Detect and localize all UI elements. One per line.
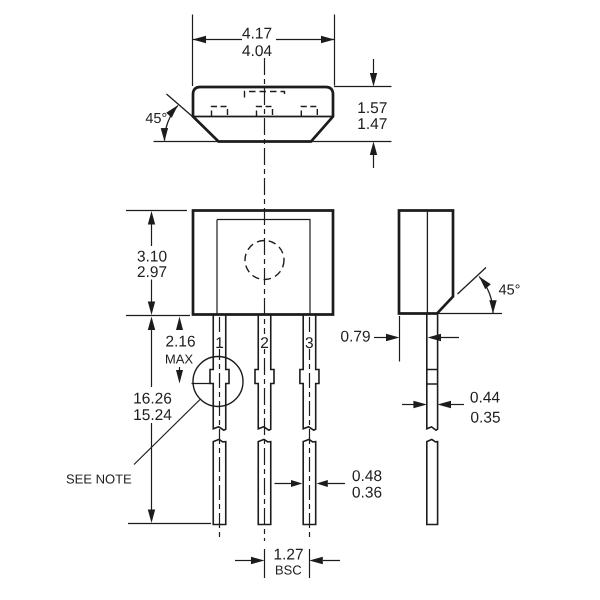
text lead number 2: [261, 337, 268, 348]
45 deg callout (side) arc: [479, 277, 493, 314]
text 0.44: [471, 392, 500, 403]
dim 4.17 arrow right: [321, 36, 335, 43]
side view body outline: [399, 211, 453, 314]
dim 2.16 arrow down: [176, 370, 183, 384]
text 1.27: [275, 549, 303, 560]
dim 2.16 arrow down line: [179, 367, 181, 370]
front view lead 3 lower segment: [303, 439, 316, 524]
front view lead 2 lower segment: [258, 439, 271, 524]
centerline lead 1: [219, 317, 221, 541]
text lead number 3: [306, 337, 313, 348]
dim 0.48 arrow left-pointing: [317, 480, 328, 487]
text 3.10: [138, 251, 167, 262]
45 deg callout slant line: [167, 94, 194, 117]
text 45 deg side: [499, 284, 520, 294]
front view lead 2: [255, 315, 274, 430]
text 15.24: [134, 409, 171, 420]
dim 0.79 arrow right-pointing: [386, 334, 400, 341]
dim 3.10/2.97 ext line bottom: [126, 315, 190, 317]
45 deg arc arrow upper: [166, 105, 178, 118]
dim 1.57 bottom arrow line: [373, 155, 375, 168]
45 deg (side) arc arrow lower: [489, 300, 496, 313]
centerline main vertical (x=264.5): [264, 58, 266, 541]
dim 16.26 arrow up: [148, 317, 155, 331]
dim 1.27 arrow left-pointing: [309, 557, 323, 564]
dim 16.26 dimension line: [151, 330, 153, 510]
dim 1.27 arrow right-pointing: [251, 557, 265, 564]
see-note leader line: [134, 400, 200, 465]
text 1.57: [358, 102, 386, 113]
45 deg (side) arc arrow upper: [479, 277, 491, 290]
text 0.36: [353, 487, 382, 498]
front view hidden circle (dashed): [245, 241, 284, 280]
text SEE NOTE: [67, 474, 132, 483]
45 deg callout (side) ext line: [437, 313, 502, 315]
dim 2.16 ext line (lead shoulder): [192, 383, 210, 385]
front view body outline: [193, 211, 333, 315]
dim 1.27 arrow line left: [235, 560, 251, 562]
dim 3.10 arrow bottom: [148, 302, 155, 316]
dim 0.44 arrow left-pointing: [438, 401, 452, 408]
text 0.79: [341, 331, 370, 342]
45 deg callout (top view) ext line bottom left: [154, 141, 219, 143]
text 1.47: [358, 118, 386, 129]
dim 3.10/2.97 ext line top: [126, 210, 187, 212]
dim 3.10 arrow top: [148, 211, 155, 225]
dim 0.79 ext line: [399, 316, 401, 362]
top view hidden pad (dashed): [245, 92, 285, 98]
dim 16.26 ext line bottom: [128, 523, 211, 525]
dim 0.44 arrow line right: [451, 404, 464, 406]
text 4.17: [242, 28, 271, 39]
dim 0.48/0.36 arrow line left: [275, 483, 292, 485]
text 2.16: [166, 336, 195, 347]
top view hidden lead tab 2 (dashed): [257, 107, 273, 117]
top view body outline: [193, 87, 333, 142]
side view lead shoulder ticks: [427, 370, 438, 385]
top view hidden lead tab 1 (dashed): [212, 107, 228, 117]
dim 1.57/1.47 top arrow line: [373, 59, 375, 73]
dim 0.44 arrow right-pointing: [413, 401, 427, 408]
text BSC: [276, 565, 301, 574]
dim 3.10 dimension line: [151, 224, 153, 302]
dim 0.44/0.35 arrow line left: [402, 404, 414, 406]
text 0.48: [353, 470, 382, 481]
dim 1.27 ext line left: [264, 549, 266, 578]
text 2.97: [138, 266, 167, 277]
dim 1.57 ext line top: [334, 86, 392, 88]
45 deg callout arc: [165, 106, 178, 141]
top view mid edge line: [193, 116, 333, 118]
lead number labels backing: [215, 334, 315, 349]
45 deg arc arrow lower: [161, 128, 168, 142]
dim 16.26 arrow down: [148, 510, 155, 524]
dim 1.57 bottom arrow: [370, 142, 377, 156]
see-note circle on lead 1 shoulder: [193, 357, 243, 407]
side view lead lower segment: [427, 439, 438, 524]
text lead number 1: [216, 337, 223, 348]
centerline lead 3: [309, 317, 311, 541]
dim 4.17/4.04 ext line right: [334, 15, 336, 86]
text 0.35: [471, 412, 500, 423]
dim 0.79 arrow left-pointing: [428, 334, 442, 341]
dim 1.27 ext line right: [309, 549, 311, 578]
front view inner face rect: [217, 220, 310, 315]
45 deg callout (side view) slant line: [458, 268, 487, 295]
front view lead 1: [210, 315, 229, 430]
dim 2.16 arrow up: [176, 317, 183, 331]
front view lead 3: [300, 315, 319, 430]
dim 1.27 arrow line right: [323, 560, 340, 562]
side view face edge line: [426, 212, 428, 314]
dim 0.48 arrow right-pointing: [291, 480, 302, 487]
dim 4.17/4.04 dimension line: [193, 39, 335, 41]
side view lead upper segment: [427, 315, 438, 431]
dim 0.79 arrow line left: [374, 337, 386, 339]
text 45 deg top: [146, 113, 167, 123]
text MAX: [166, 355, 193, 364]
dim 4.17/4.04 ext line left: [192, 15, 194, 87]
top view hidden lead tab 3 (dashed): [301, 107, 317, 117]
dim 0.48 arrow line right: [328, 483, 345, 485]
front view lead 1 lower segment: [213, 439, 226, 524]
dim 0.79 arrow line right: [441, 337, 459, 339]
dim 1.57 top arrow: [370, 73, 377, 87]
dim 1.57 ext line bottom right: [311, 141, 392, 143]
text 4.04: [242, 45, 271, 56]
dim 4.17 arrow left: [193, 36, 207, 43]
text 16.26: [134, 393, 171, 404]
